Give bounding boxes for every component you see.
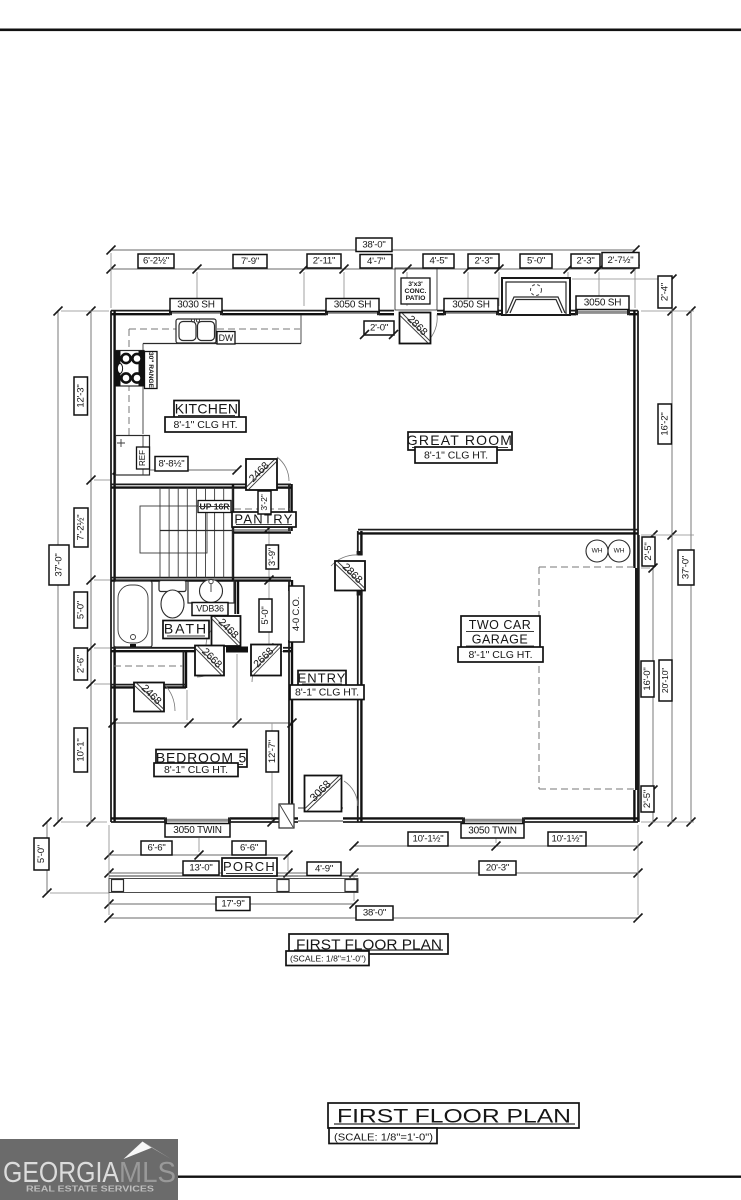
svg-text:38'-0": 38'-0" — [363, 908, 386, 919]
entry stoop — [279, 804, 294, 828]
svg-text:REAL ESTATE SERVICES: REAL ESTATE SERVICES — [26, 1185, 155, 1194]
kitchen upper cabinets dashed — [129, 328, 300, 330]
svg-text:3050 TWIN: 3050 TWIN — [468, 825, 517, 836]
dim 3-2 pantry — [258, 491, 271, 514]
window label 3050 SH gr-left — [444, 299, 498, 312]
svg-text:KITCHEN: KITCHEN — [175, 400, 239, 416]
vanity counter — [188, 581, 234, 604]
dim 2-6 left — [74, 648, 88, 680]
svg-text:DW: DW — [219, 333, 234, 343]
concrete patio outline — [395, 268, 437, 310]
svg-text:7'-2½": 7'-2½" — [76, 515, 87, 541]
dim 6-6 a — [141, 841, 172, 855]
door 2468 bath — [206, 617, 236, 645]
bottom extension lines — [108, 825, 110, 915]
svg-text:5'-0": 5'-0" — [36, 845, 47, 863]
left segment dim line — [90, 311, 92, 822]
bath/hall south wall — [111, 647, 196, 649]
svg-text:4-0 C.O.: 4-0 C.O. — [291, 597, 302, 631]
svg-text:10'-1½": 10'-1½" — [412, 834, 443, 845]
kitchen 8-8half dim line — [117, 469, 237, 471]
right dim line garage heights — [652, 535, 654, 822]
dim 37-0 right — [678, 550, 694, 585]
dim 20-3 — [479, 861, 516, 875]
svg-text:WH: WH — [614, 548, 625, 555]
door 2468 pantry/kitchen — [277, 457, 289, 481]
bathtub — [114, 581, 152, 647]
door 3068 front entry — [298, 807, 343, 809]
logo roof icon white slope — [124, 1142, 152, 1160]
porch 5ft dim line — [46, 822, 48, 893]
svg-text:BATH: BATH — [164, 621, 208, 637]
svg-text:5'-0": 5'-0" — [527, 256, 545, 267]
top rule line — [0, 29, 741, 32]
dim 4-7 — [360, 255, 392, 269]
fireplace flue dashed circle — [531, 285, 542, 296]
title first floor plan large — [328, 1103, 579, 1128]
kitchen counter top edge — [143, 343, 301, 345]
bath east wall stub — [234, 580, 236, 614]
hall dim line 5-6 3-6 4-0 — [113, 722, 292, 724]
left extension lines — [61, 310, 109, 312]
UP 16R label — [198, 501, 231, 513]
svg-text:6'-6": 6'-6" — [147, 843, 165, 854]
dim 8-8half kitchen — [155, 457, 188, 472]
closet rod dashed — [114, 665, 183, 667]
window label 3050 TWIN bedroom — [165, 824, 230, 838]
kitchen left counter edge — [142, 344, 144, 435]
dim 10-1half b — [548, 832, 586, 846]
top exterior wall — [111, 310, 170, 312]
water heater WH circles — [586, 540, 608, 562]
GREAT ROOM label — [408, 432, 512, 450]
svg-text:16'-0": 16'-0" — [642, 667, 653, 690]
svg-text:8'-1" CLG HT.: 8'-1" CLG HT. — [468, 649, 532, 661]
svg-text:2'-5": 2'-5" — [642, 790, 653, 808]
dim 6-6 b — [232, 841, 266, 855]
dim 5-0 left — [74, 592, 88, 628]
stair center rail — [160, 530, 233, 532]
svg-text:ENTRY: ENTRY — [298, 670, 347, 685]
svg-text:2'-5": 2'-5" — [643, 542, 654, 560]
svg-text:3050 SH: 3050 SH — [584, 297, 622, 308]
top segment dim line — [111, 268, 635, 270]
title first floor plan small — [289, 934, 448, 954]
BEDROOM 5 label — [156, 750, 247, 768]
range — [116, 351, 144, 387]
window 3030 SH top-left glazing — [170, 311, 222, 314]
dim 13-0 — [183, 861, 219, 875]
bottom dim line 6-6 6-6 — [109, 854, 288, 856]
bath door black jambs — [226, 647, 248, 653]
porch deck band — [109, 879, 358, 893]
PORCH label — [222, 858, 277, 876]
pantry shelf dashed — [234, 508, 290, 510]
right extension lines — [572, 278, 669, 280]
dim 2-3 b — [571, 254, 600, 268]
stair landing outline — [140, 506, 207, 553]
left exterior wall — [110, 311, 112, 822]
window 3050 SH top-mid glazing — [326, 311, 379, 314]
door 2468 closet — [164, 684, 175, 711]
svg-text:8'-8½": 8'-8½" — [159, 458, 185, 469]
range label 30in RANGE — [145, 352, 158, 389]
toilet — [159, 581, 186, 592]
door 2668 hall-left — [197, 652, 224, 678]
porch post left — [112, 880, 124, 892]
dim 38-0 top — [356, 238, 392, 252]
dim 37-0 left — [49, 545, 69, 585]
top extension lines — [110, 253, 112, 308]
cased opening 4-0 dashed — [288, 580, 290, 591]
window 3050 SH great-room-right glazing — [576, 311, 629, 314]
svg-text:8'-1" CLG HT.: 8'-1" CLG HT. — [173, 419, 237, 431]
porch post middle — [277, 880, 289, 892]
dim 4-5 — [423, 254, 454, 268]
svg-text:37'-0": 37'-0" — [681, 556, 692, 579]
garage west / entry east wall — [357, 531, 359, 555]
svg-text:37'-0": 37'-0" — [54, 553, 65, 576]
svg-text:7'-9": 7'-9" — [241, 256, 259, 267]
front door threshold — [298, 820, 343, 822]
interior vertical dim line 3-2 3-9 5-0 — [268, 487, 270, 648]
bottom exterior wall — [111, 821, 165, 823]
svg-text:3050 TWIN: 3050 TWIN — [173, 825, 222, 836]
svg-text:8'-1" CLG HT.: 8'-1" CLG HT. — [295, 687, 359, 699]
svg-text:REF: REF — [138, 450, 147, 466]
dim 7-2half left — [74, 508, 88, 547]
dishwasher DW label — [217, 332, 235, 345]
kitchen sink — [176, 319, 216, 343]
dim 38-0 bottom — [356, 906, 393, 920]
fireplace — [502, 278, 570, 315]
logo roof icon gray slope — [144, 1142, 171, 1159]
window 3050 TWIN bedroom glazing — [165, 819, 230, 822]
door 2868 rear patio — [427, 315, 437, 343]
dim 20-10 right — [659, 660, 672, 701]
pantry bottom shelf lines — [233, 526, 291, 528]
bottom dim line 13-0 4-9 20-3 — [109, 872, 638, 874]
Georgia MLS logo — [0, 1139, 178, 1200]
svg-text:3'-2": 3'-2" — [259, 494, 269, 510]
dim 5-0 porch left — [34, 838, 49, 870]
svg-text:2'-0": 2'-0" — [370, 323, 388, 334]
svg-text:10'-1": 10'-1" — [75, 738, 86, 761]
svg-text:3'-9": 3'-9" — [267, 548, 278, 566]
svg-text:8'-1" CLG HT.: 8'-1" CLG HT. — [164, 764, 228, 776]
dim 7-9 — [233, 255, 267, 269]
svg-text:TWO CAR: TWO CAR — [469, 618, 532, 632]
svg-text:GARAGE: GARAGE — [472, 632, 529, 646]
door 2868 garage/entry — [331, 555, 358, 566]
svg-text:20'-3": 20'-3" — [486, 863, 509, 874]
svg-text:12'-7": 12'-7" — [267, 740, 278, 763]
svg-text:3'x3': 3'x3' — [408, 281, 423, 288]
closet front wall — [111, 684, 134, 686]
svg-text:6'-2½": 6'-2½" — [143, 256, 169, 267]
dim 2-5 right bottom — [641, 786, 654, 812]
svg-text:8'-1" CLG HT.: 8'-1" CLG HT. — [424, 449, 488, 461]
garage door dashed track — [539, 566, 635, 568]
svg-text:4'-5": 4'-5" — [429, 256, 447, 267]
svg-text:17'-9": 17'-9" — [221, 898, 244, 909]
dim 12-3 left — [74, 377, 88, 415]
svg-text:2'-11": 2'-11" — [313, 256, 336, 267]
patio label 3x3 CONC PATIO — [401, 278, 430, 304]
entry west wall — [288, 648, 290, 822]
window 3050 TWIN garage glazing — [463, 819, 524, 822]
svg-text:5'-0": 5'-0" — [260, 606, 271, 624]
dim 2-7half — [602, 253, 639, 269]
dim 3-9 hall — [266, 545, 279, 569]
svg-text:38'-0": 38'-0" — [362, 239, 385, 250]
dim 17-9 — [216, 897, 250, 911]
svg-text:CONC.: CONC. — [405, 288, 427, 295]
KITCHEN label — [174, 401, 239, 419]
svg-text:3030 SH: 3030 SH — [177, 300, 215, 311]
porch post right — [345, 880, 357, 892]
bottom rule line — [178, 1176, 741, 1178]
REF label — [137, 447, 150, 469]
dim 2-4 right — [658, 276, 672, 308]
refrigerator — [116, 436, 150, 476]
bedroom 12-7 dim line — [271, 723, 273, 822]
svg-text:13'-0": 13'-0" — [189, 863, 212, 874]
svg-text:PATIO: PATIO — [406, 295, 426, 302]
window label 3050 SH mid — [326, 299, 379, 312]
dim 16-0 right — [641, 661, 654, 697]
stair top wall — [111, 483, 246, 485]
svg-text:GREAT ROOM: GREAT ROOM — [407, 432, 513, 448]
window label 3030 SH — [170, 299, 222, 312]
right dim line 20-10 16-2 2-4 — [671, 279, 673, 822]
door 2668 hall-right — [252, 652, 283, 683]
pantry east wall — [288, 484, 290, 531]
dim 12-7 bedroom — [266, 731, 279, 772]
VDB36 label — [192, 603, 228, 616]
svg-text:16'-2": 16'-2" — [659, 412, 670, 435]
dim 6-2half — [138, 254, 174, 268]
porch front edge line — [109, 875, 358, 877]
right dim line 37ft — [690, 311, 692, 822]
svg-text:20'-10": 20'-10" — [660, 668, 670, 693]
top overall dim line 38ft — [111, 249, 635, 251]
dim 5-0 top — [520, 254, 552, 268]
svg-text:PORCH: PORCH — [223, 859, 276, 874]
dim 2-5 right top — [642, 537, 655, 566]
bottom dim line 38ft — [109, 917, 638, 919]
stair bottom wall — [111, 577, 291, 579]
garage north wall — [358, 529, 638, 531]
svg-text:2'-6": 2'-6" — [75, 655, 86, 673]
left dim line 37ft — [57, 311, 59, 822]
svg-text:12'-3": 12'-3" — [75, 384, 86, 407]
dim 5-0 hall — [259, 599, 272, 632]
BATH label — [163, 621, 209, 639]
title scale large — [329, 1128, 437, 1144]
PANTRY label — [232, 512, 296, 527]
svg-text:3050 SH: 3050 SH — [452, 300, 490, 311]
stair treads — [159, 488, 161, 578]
svg-text:(SCALE: 1/8"=1'-0"): (SCALE: 1/8"=1'-0") — [290, 955, 366, 964]
svg-text:2'-4": 2'-4" — [660, 283, 671, 301]
svg-text:5'-0": 5'-0" — [75, 601, 86, 619]
svg-text:4'-9": 4'-9" — [315, 863, 333, 874]
svg-text:2'-3": 2'-3" — [474, 256, 492, 267]
label 4-0 CO — [289, 586, 304, 642]
dim 16-2 right — [658, 404, 672, 444]
dim 4-9 — [307, 862, 341, 876]
dim 2-3 a — [468, 254, 499, 268]
svg-text:30" RANGE: 30" RANGE — [147, 352, 154, 389]
svg-text:10'-1½": 10'-1½" — [551, 834, 582, 845]
svg-text:WH: WH — [592, 548, 603, 555]
dim 10-1half a — [408, 832, 448, 846]
bottom dim line 17-9 — [109, 903, 354, 905]
right exterior wall garage door section — [635, 568, 639, 790]
window label 3050 TWIN garage — [461, 824, 524, 839]
svg-text:6'-6": 6'-6" — [240, 843, 258, 854]
svg-text:VDB36: VDB36 — [196, 603, 224, 613]
pantry west wall / stair east wall — [232, 484, 234, 580]
dim 2-11 — [307, 254, 341, 268]
svg-text:3050 SH: 3050 SH — [334, 300, 372, 311]
closet east wall — [182, 651, 184, 688]
vanity sink bowl — [200, 580, 223, 603]
window 3050 SH great-room-left glazing — [444, 311, 498, 314]
title scale small — [286, 951, 369, 966]
svg-text:4'-7": 4'-7" — [367, 256, 385, 267]
svg-text:(SCALE: 1/8"=1'-0"): (SCALE: 1/8"=1'-0") — [334, 1131, 433, 1143]
dim 2-0 rear door — [364, 321, 394, 335]
svg-text:2'-3": 2'-3" — [576, 256, 594, 267]
dim 10-1 left — [74, 728, 88, 772]
svg-text:2'-7½": 2'-7½" — [608, 255, 634, 266]
window label 3050 SH gr-right — [576, 296, 629, 310]
bottom dim line 10-1 halves — [354, 845, 638, 847]
ENTRY label — [298, 671, 346, 687]
right exterior wall upper — [637, 311, 639, 535]
TWO CAR GARAGE label — [461, 616, 540, 649]
